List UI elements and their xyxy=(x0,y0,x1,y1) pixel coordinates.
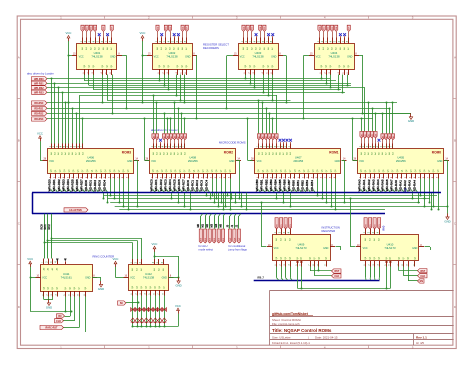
global label U409 CLK xyxy=(332,274,342,278)
svg-text:29C256: 29C256 xyxy=(188,159,198,163)
bus stubs for conditional jump xyxy=(226,214,240,243)
ground GND top right xyxy=(408,113,414,123)
svg-text:74LS138: 74LS138 xyxy=(143,275,155,279)
wires ROM0 control pins down xyxy=(412,179,440,211)
svg-text:W2: W2 xyxy=(91,27,93,30)
global labels above U404 xyxy=(318,25,351,37)
wire ROM0 right pin down xyxy=(444,160,449,213)
svg-text:GND: GND xyxy=(444,219,450,223)
svg-text:IR1: IR1 xyxy=(370,224,372,227)
svg-text:also driven by Loader: also driven by Loader xyxy=(27,71,54,75)
note also driven by Loader (left) xyxy=(27,71,54,75)
svg-text:VCC: VCC xyxy=(175,304,181,308)
wire U404 enable to bundle xyxy=(303,56,310,120)
IC U411 74LS161 ring counter xyxy=(36,259,98,297)
svg-text:IR3: IR3 xyxy=(379,224,381,227)
svg-text:ALU: ALU xyxy=(204,237,207,241)
wire U401 output right xyxy=(122,56,128,110)
svg-text:ROM1: ROM1 xyxy=(329,151,338,155)
svg-text:29C256: 29C256 xyxy=(86,159,96,163)
svg-text:GND: GND xyxy=(229,160,235,163)
svg-text:A3: A3 xyxy=(163,136,166,138)
wire nets between buses xyxy=(104,196,448,210)
svg-text:W4: W4 xyxy=(260,27,262,30)
global labels U409 inputs xyxy=(275,218,292,229)
svg-text:ALU: ALU xyxy=(200,237,203,241)
svg-text:for ALU: for ALU xyxy=(199,244,208,248)
wire ROM2 right pin down xyxy=(236,160,241,199)
svg-text:IR2: IR2 xyxy=(285,224,287,227)
global label CLK xyxy=(55,319,64,323)
svg-text:ALU: ALU xyxy=(209,237,212,241)
svg-text:MICROCODE ROMS: MICROCODE ROMS xyxy=(219,140,246,144)
wire ROM3 right pin down xyxy=(134,160,139,207)
global labels above U402 xyxy=(156,25,189,37)
wires ROM1 control pins down xyxy=(276,179,337,211)
svg-text:A1: A1 xyxy=(364,134,367,136)
svg-text:GND: GND xyxy=(347,55,353,58)
svg-text:IR0: IR0 xyxy=(365,224,367,227)
svg-text:RC1: RC1 xyxy=(43,224,47,230)
svg-text:jump from flags: jump from flags xyxy=(228,247,248,251)
bus RD0..7 (upper) xyxy=(32,192,441,194)
svg-text:A0: A0 xyxy=(360,134,363,136)
wire U402 output right xyxy=(196,56,198,120)
svg-text:74LS138: 74LS138 xyxy=(91,54,103,58)
svg-text:W7: W7 xyxy=(349,27,351,30)
power VCC resistor network xyxy=(175,304,181,327)
svg-text:WR-RS3: WR-RS3 xyxy=(34,91,44,94)
bus label IR xyxy=(258,277,265,280)
svg-text:W7: W7 xyxy=(187,27,189,30)
svg-text:DECODERS: DECODERS xyxy=(203,46,219,50)
svg-text:B: B xyxy=(18,138,20,142)
svg-text:GND: GND xyxy=(175,283,181,287)
local labels and bus entries below ROM2 xyxy=(150,179,210,193)
global label U410 RST xyxy=(418,269,428,273)
wires U410 outputs to IR bus xyxy=(366,267,380,281)
note REGISTER SELECT DECODERS xyxy=(203,42,229,50)
global label U410 EN xyxy=(418,279,425,283)
svg-text:RST: RST xyxy=(420,270,425,273)
power VCC U412 xyxy=(113,257,124,278)
title block xyxy=(270,290,454,345)
global labels above U401 xyxy=(81,25,114,37)
svg-text:A3: A3 xyxy=(268,136,271,138)
svg-text:IR2: IR2 xyxy=(374,224,376,227)
bus stubs for ALU mode select xyxy=(197,214,225,243)
ROM U408 29C256 ROM2 xyxy=(145,144,242,179)
wires U410 control pins xyxy=(399,267,418,282)
wires U402 outputs to bundle xyxy=(159,75,186,104)
svg-text:GND: GND xyxy=(85,277,91,280)
svg-text:A4: A4 xyxy=(272,136,275,138)
svg-text:W3: W3 xyxy=(332,27,334,30)
local labels and bus entries below ROM3 xyxy=(48,179,108,193)
svg-text:W2: W2 xyxy=(328,27,330,30)
wires U409 inverted outputs xyxy=(298,267,357,290)
svg-text:RD-RS1: RD-RS1 xyxy=(34,108,44,111)
wire U409 clock feed xyxy=(261,202,267,248)
svg-text:RING COUNTER: RING COUNTER xyxy=(93,254,115,258)
svg-text:A2: A2 xyxy=(367,134,370,136)
svg-text:GND: GND xyxy=(98,287,104,291)
svg-text:W3: W3 xyxy=(170,27,172,30)
svg-text:KiCad E.D.A. kicad (5.1.10)-1: KiCad E.D.A. kicad (5.1.10)-1 xyxy=(272,341,310,345)
svg-text:GND: GND xyxy=(46,305,52,309)
svg-text:A7: A7 xyxy=(177,136,180,138)
IC U409 74LS173 instruction register xyxy=(267,229,335,267)
svg-text:IR0..7: IR0..7 xyxy=(258,277,265,280)
svg-text:EN: EN xyxy=(420,280,424,283)
svg-text:ROM0: ROM0 xyxy=(432,151,441,155)
IC U401 74LS138 register select decoder xyxy=(72,38,122,76)
global labels RD-RS0..3 xyxy=(32,101,48,121)
diode row D401-D408 xyxy=(131,308,167,312)
power VCC ROM3 xyxy=(37,131,43,160)
wires bundle to ROM address pins xyxy=(51,78,394,144)
svg-text:VCC: VCC xyxy=(49,160,54,163)
wire U409 right xyxy=(336,247,342,251)
svg-text:A4: A4 xyxy=(374,134,377,136)
svg-text:mode select: mode select xyxy=(199,247,214,251)
IC U410 74LS173 instruction register xyxy=(356,229,424,267)
svg-text:A: A xyxy=(18,55,20,59)
wire U404 output right xyxy=(359,56,364,115)
wire U404 gnd run xyxy=(363,113,411,115)
svg-text:RD-RS3: RD-RS3 xyxy=(34,118,44,121)
wire U410 clock feed xyxy=(350,198,356,248)
wires U401 outputs to bundle xyxy=(85,75,114,115)
svg-text:CLK: CLK xyxy=(56,320,61,323)
svg-text:VCC: VCC xyxy=(257,160,262,163)
svg-text:RC: RC xyxy=(58,315,62,318)
ground GND ROM0 right pin xyxy=(444,214,450,224)
note INSTRUCTION REGISTER xyxy=(322,225,340,233)
svg-text:VCC: VCC xyxy=(37,131,43,135)
svg-text:IR-RC-RST: IR-RC-RST xyxy=(45,327,58,330)
svg-text:74LS138: 74LS138 xyxy=(328,54,340,58)
local labels and bus entries below ROM0 xyxy=(358,179,418,192)
global labels above ROM0 xyxy=(360,131,395,143)
global labels U410 inputs xyxy=(364,218,381,229)
bus label LD-ACTIVE xyxy=(64,208,88,212)
svg-text:GND: GND xyxy=(323,247,329,250)
svg-text:A5: A5 xyxy=(275,136,278,138)
svg-text:M3: M3 xyxy=(211,223,214,227)
svg-text:A6: A6 xyxy=(381,136,384,138)
svg-text:29C256: 29C256 xyxy=(293,159,303,163)
wire ROM1 right pin down xyxy=(342,160,346,203)
svg-text:W2: W2 xyxy=(166,27,168,30)
svg-text:WR-RS2: WR-RS2 xyxy=(34,87,44,90)
wires U409 outputs to IR bus xyxy=(277,267,293,281)
svg-text:M2: M2 xyxy=(206,223,209,227)
svg-text:W6: W6 xyxy=(182,27,184,30)
global labels above U403 xyxy=(242,25,274,37)
svg-text:LD-ACTIVE: LD-ACTIVE xyxy=(69,209,82,212)
wire U403 enable to bundle xyxy=(226,56,234,110)
svg-text:A6: A6 xyxy=(173,136,176,138)
svg-text:W3: W3 xyxy=(95,27,97,30)
wires U403 outputs to bundle xyxy=(245,75,274,102)
power VCC U401 xyxy=(66,31,72,103)
note for ALU mode select xyxy=(199,244,214,252)
svg-text:Rev 1.1: Rev 1.1 xyxy=(416,335,427,339)
svg-text:W5: W5 xyxy=(103,27,105,30)
svg-text:IR1: IR1 xyxy=(281,224,283,227)
wires U404 outputs to bundle xyxy=(321,75,349,94)
svg-text:IR-D: IR-D xyxy=(383,225,386,230)
diode row D409-D416 xyxy=(131,318,167,323)
svg-text:GND: GND xyxy=(271,55,277,58)
svg-text:A0: A0 xyxy=(258,136,261,138)
svg-text:W0: W0 xyxy=(319,27,321,30)
svg-text:74LS173: 74LS173 xyxy=(384,246,396,250)
note for conditional jump xyxy=(228,244,248,252)
svg-text:74LS161: 74LS161 xyxy=(61,276,73,280)
svg-text:VCC: VCC xyxy=(66,31,72,35)
svg-text:74LS173: 74LS173 xyxy=(295,246,307,250)
svg-text:A9: A9 xyxy=(392,136,395,138)
IC U402 74LS138 register select decoder xyxy=(147,38,197,76)
svg-text:A8: A8 xyxy=(180,136,183,138)
wire U403 output right xyxy=(283,56,288,104)
svg-text:ROM3: ROM3 xyxy=(122,151,131,155)
svg-text:VCC: VCC xyxy=(240,55,245,58)
svg-text:ALU: ALU xyxy=(222,237,225,241)
svg-text:GND: GND xyxy=(412,247,418,250)
svg-text:RC2: RC2 xyxy=(47,224,51,230)
svg-text:IR3: IR3 xyxy=(290,224,292,227)
wires ROM3 control pins down xyxy=(103,179,130,211)
svg-text:74LS138: 74LS138 xyxy=(166,54,178,58)
svg-text:ALU: ALU xyxy=(213,237,216,241)
local label blue U410 xyxy=(383,225,386,230)
svg-text:gitHub.com/TomNisbet: gitHub.com/TomNisbet xyxy=(272,312,309,316)
svg-text:W1: W1 xyxy=(248,27,250,30)
bus IR0..7 xyxy=(254,280,380,282)
svg-text:W2: W2 xyxy=(252,27,254,30)
svg-text:A: A xyxy=(454,55,456,59)
bus left riser xyxy=(32,193,34,214)
note RING COUNTER xyxy=(93,254,115,258)
global label IR-RC-RST xyxy=(40,325,64,329)
svg-text:VCC: VCC xyxy=(274,247,279,250)
svg-text:VCC: VCC xyxy=(154,55,159,58)
svg-text:ROM2: ROM2 xyxy=(224,151,233,155)
svg-text:VCC: VCC xyxy=(316,55,321,58)
svg-text:M5: M5 xyxy=(220,223,223,227)
svg-text:74LS138: 74LS138 xyxy=(252,54,264,58)
ground GND U411 outputs xyxy=(46,300,52,310)
wires U410 inverted outputs xyxy=(356,267,391,290)
svg-text:REGISTER: REGISTER xyxy=(322,229,336,233)
ROM U406 29C256 ROM3 xyxy=(43,144,140,179)
wires bus taps mid region xyxy=(206,193,248,211)
wire VCC riser ROM0 xyxy=(352,118,358,161)
svg-text:VCC: VCC xyxy=(79,55,84,58)
svg-text:W0: W0 xyxy=(82,27,84,30)
global labels WR-RS0..3 xyxy=(32,77,48,95)
svg-text:A2: A2 xyxy=(265,136,268,138)
svg-text:VCC: VCC xyxy=(152,242,158,246)
svg-text:29C256: 29C256 xyxy=(396,159,406,163)
svg-text:VCC: VCC xyxy=(151,160,156,163)
svg-text:RD-RS2: RD-RS2 xyxy=(34,113,44,116)
power VCC U411 and wire to net xyxy=(27,257,72,313)
svg-text:INSTRUCTION: INSTRUCTION xyxy=(322,225,340,229)
svg-text:A1: A1 xyxy=(261,136,264,138)
global labels above ROM1 xyxy=(257,134,292,144)
ground GND U412 xyxy=(175,278,181,288)
svg-text:M0: M0 xyxy=(197,223,200,227)
bus lower xyxy=(32,213,385,215)
wire bus horizontal nets xyxy=(47,79,411,119)
svg-text:RC0: RC0 xyxy=(40,224,44,230)
svg-text:GND: GND xyxy=(162,276,168,279)
svg-text:W5: W5 xyxy=(264,27,266,30)
svg-text:Size: USLetter: Size: USLetter xyxy=(272,335,291,339)
svg-text:GND: GND xyxy=(110,55,116,58)
svg-text:W1: W1 xyxy=(324,27,326,30)
svg-text:VCC: VCC xyxy=(130,276,135,279)
svg-text:M1: M1 xyxy=(202,223,205,227)
svg-text:W0: W0 xyxy=(157,27,159,30)
svg-text:W1: W1 xyxy=(87,27,89,30)
svg-text:A7: A7 xyxy=(385,136,388,138)
svg-text:WR-RS1: WR-RS1 xyxy=(34,82,44,85)
wires ring counter to U412 select xyxy=(44,238,142,259)
svg-text:RST: RST xyxy=(334,270,339,273)
wire VCC riser ROM2 xyxy=(144,118,150,161)
global labels above ROM2 xyxy=(152,134,187,144)
svg-text:A9: A9 xyxy=(184,136,187,138)
svg-text:A4: A4 xyxy=(166,136,169,138)
svg-text:M4: M4 xyxy=(215,223,218,227)
svg-text:for conditional: for conditional xyxy=(229,244,246,248)
svg-text:VCC: VCC xyxy=(113,257,119,261)
svg-text:RD-RS0: RD-RS0 xyxy=(34,102,44,105)
wires bus to ring counter inputs xyxy=(40,214,53,259)
svg-text:VCC: VCC xyxy=(42,277,47,280)
global label RC-RST xyxy=(57,314,65,318)
svg-text:Title: NQSAP Control ROMs: Title: NQSAP Control ROMs xyxy=(272,328,332,333)
wires U411 Q pins to gnd xyxy=(44,297,53,300)
wires U412 outputs to resistor network xyxy=(132,296,179,328)
svg-text:VCC: VCC xyxy=(359,160,364,163)
power VCC U402 xyxy=(140,31,147,103)
ROM U405 29C256 ROM0 xyxy=(353,144,450,179)
note MICROCODE ROMS xyxy=(219,140,246,144)
IC U412 74LS138 step decoder xyxy=(124,259,174,296)
power VCC U412 enables xyxy=(152,242,180,279)
svg-text:W0: W0 xyxy=(243,27,245,30)
svg-text:A5: A5 xyxy=(170,136,173,138)
svg-text:CLK: CLK xyxy=(420,275,425,278)
svg-text:Date: 2021-04-15: Date: 2021-04-15 xyxy=(315,335,338,339)
wire U410 right xyxy=(425,247,431,251)
local labels and bus entries below ROM1 xyxy=(255,179,315,192)
global label U410 CLK xyxy=(418,274,428,278)
svg-text:B: B xyxy=(454,138,456,142)
svg-text:W7: W7 xyxy=(112,27,114,30)
local label blue below ROM0 xyxy=(405,188,408,193)
wire U411 gnd xyxy=(92,278,101,282)
IC U404 74LS138 register select decoder xyxy=(309,38,359,76)
svg-text:ALU: ALU xyxy=(218,237,221,241)
svg-text:Id: 4/5: Id: 4/5 xyxy=(416,341,424,345)
wires U409 control pins xyxy=(310,267,332,276)
svg-text:VCC: VCC xyxy=(140,31,146,35)
wire VCC riser ROM1 xyxy=(247,118,253,161)
IC U403 74LS138 register select decoder xyxy=(233,38,283,76)
svg-text:VCC: VCC xyxy=(27,257,33,261)
svg-text:GND: GND xyxy=(127,160,133,163)
svg-text:A1: A1 xyxy=(156,136,159,138)
svg-text:W4: W4 xyxy=(336,27,338,30)
svg-text:WR-RS0: WR-RS0 xyxy=(34,78,44,81)
svg-text:A0: A0 xyxy=(152,136,155,138)
note also driven by Loader (ROM2) xyxy=(151,128,178,132)
svg-text:GND: GND xyxy=(335,160,341,163)
wires ROM2 control pins down xyxy=(171,179,232,211)
svg-text:CLK: CLK xyxy=(334,275,339,278)
svg-text:File: control-roms.sch: File: control-roms.sch xyxy=(272,322,300,326)
global label step S0 xyxy=(118,301,140,305)
svg-text:GND: GND xyxy=(437,160,443,163)
svg-text:A8: A8 xyxy=(388,136,391,138)
wires U411 control pins xyxy=(64,297,86,333)
svg-text:GND: GND xyxy=(185,55,191,58)
svg-text:IR0: IR0 xyxy=(276,224,278,227)
svg-text:A3: A3 xyxy=(371,134,374,136)
global label U409 RST xyxy=(332,269,342,273)
svg-text:VCC: VCC xyxy=(363,247,368,250)
ROM U407 29C256 ROM1 xyxy=(250,144,347,179)
ground GND U411 xyxy=(98,281,104,291)
svg-text:GND: GND xyxy=(408,119,414,123)
